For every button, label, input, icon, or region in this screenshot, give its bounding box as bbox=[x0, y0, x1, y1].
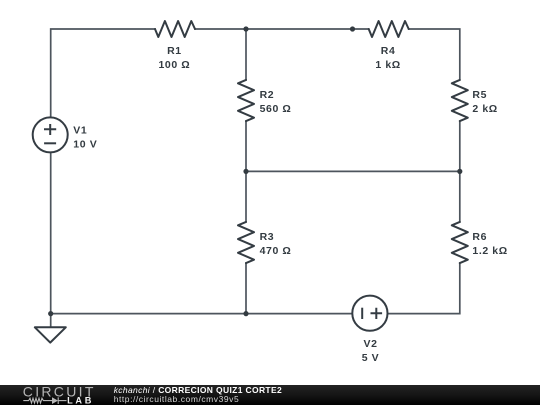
label R1 100 Ω bbox=[158, 45, 190, 71]
resistor R6 bbox=[452, 222, 468, 263]
label R2 560 Ω bbox=[260, 89, 292, 115]
svg-text:LAB: LAB bbox=[67, 396, 94, 405]
wire R6 bottom to bottom-right corner to V2 right bbox=[388, 263, 460, 314]
resistor R5 bbox=[452, 80, 468, 121]
node junction dot bottom rail R3 bbox=[243, 311, 248, 316]
wire R3 bottom to bottom rail bbox=[245, 263, 247, 314]
wire R5 bottom to R6 top bbox=[459, 121, 461, 222]
label V1 10 V bbox=[73, 125, 97, 151]
svg-text:R6: R6 bbox=[472, 231, 487, 243]
wire middle rail bbox=[246, 170, 460, 172]
svg-text:R3: R3 bbox=[260, 231, 275, 243]
svg-text:R4: R4 bbox=[381, 45, 396, 57]
svg-text:R1: R1 bbox=[167, 45, 182, 57]
resistor R1 bbox=[155, 21, 195, 37]
svg-text:1.2 kΩ: 1.2 kΩ bbox=[472, 245, 507, 257]
svg-text:R2: R2 bbox=[260, 89, 275, 101]
svg-text:100 Ω: 100 Ω bbox=[158, 59, 190, 71]
svg-text:V1: V1 bbox=[73, 125, 87, 137]
node junction dot middle rail right bbox=[457, 169, 462, 174]
wire top rail R1 right to R4 left bbox=[195, 28, 369, 30]
node junction dot top R1-R2 bbox=[243, 26, 248, 31]
svg-text:http://circuitlab.com/cmv39v5: http://circuitlab.com/cmv39v5 bbox=[114, 394, 240, 404]
label V2 5 V bbox=[362, 338, 380, 364]
svg-text:2 kΩ: 2 kΩ bbox=[472, 103, 497, 115]
label R6 1.2 kΩ bbox=[472, 231, 507, 257]
resistor R4 bbox=[369, 21, 409, 37]
label R3 470 Ω bbox=[260, 231, 292, 257]
ground bbox=[35, 327, 66, 342]
CircuitLab logo resistor-diode glyph bbox=[23, 397, 66, 404]
wire bottom rail V2 left to ground node bbox=[51, 313, 353, 315]
svg-text:470 Ω: 470 Ω bbox=[260, 245, 292, 257]
wire left rail V1 bottom to ground node bbox=[50, 153, 52, 314]
wire R2 bottom to R3 top through middle node bbox=[245, 121, 247, 222]
svg-text:10 V: 10 V bbox=[73, 139, 97, 151]
label R4 1 kΩ bbox=[375, 45, 400, 71]
wire ground stem bbox=[50, 314, 52, 328]
voltage source V2 bbox=[352, 296, 387, 331]
node junction dot top left of R4 bbox=[350, 26, 355, 31]
node junction dot middle rail left bbox=[243, 169, 248, 174]
svg-text:560 Ω: 560 Ω bbox=[260, 103, 292, 115]
resistor R2 bbox=[238, 80, 254, 121]
wire top-right rail R4 right to R5 top bbox=[409, 29, 460, 80]
svg-text:1 kΩ: 1 kΩ bbox=[375, 59, 400, 71]
wire node A column to R2 top bbox=[245, 29, 247, 80]
svg-text:5 V: 5 V bbox=[362, 352, 380, 364]
label R5 2 kΩ bbox=[472, 89, 497, 115]
svg-text:V2: V2 bbox=[363, 338, 377, 350]
resistor R3 bbox=[238, 222, 254, 263]
wire top-left rail from V1 top to R1 left bbox=[51, 29, 155, 118]
ground node junction dot bbox=[48, 311, 53, 316]
voltage source V1 bbox=[33, 117, 68, 152]
svg-text:R5: R5 bbox=[472, 89, 487, 101]
